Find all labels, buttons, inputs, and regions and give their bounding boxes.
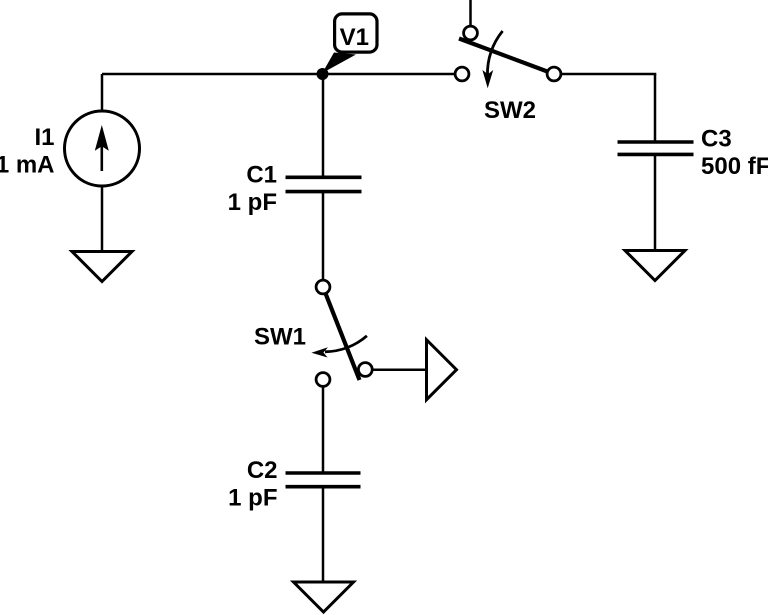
svg-text:C3: C3	[701, 125, 732, 152]
wire junction down to C1	[322, 74, 325, 176]
wire SW2 top stub	[469, 0, 472, 27]
svg-text:1 pF: 1 pF	[228, 189, 277, 216]
svg-text:1 pF: 1 pF	[228, 485, 277, 512]
switch SW1 arc	[325, 336, 367, 352]
capacitor C3 bottom plate	[618, 153, 694, 157]
capacitor C2 bottom plate	[286, 485, 361, 489]
ground under I1	[72, 252, 132, 282]
capacitor C2 top plate	[286, 471, 361, 475]
current source I1 arrow head	[95, 125, 109, 151]
switch SW1 top terminal	[316, 280, 330, 294]
ground rotated right of SW1	[427, 340, 457, 400]
wire corner down to C3	[654, 74, 657, 143]
switch SW2 blade	[459, 39, 554, 75]
svg-text:1 mA: 1 mA	[0, 152, 55, 179]
node V1 junction dot	[317, 68, 329, 80]
switch SW2 left terminal	[455, 67, 469, 81]
current source I1 circle	[65, 111, 140, 186]
svg-text:SW1: SW1	[254, 323, 306, 350]
wire I1 top stub	[101, 74, 104, 112]
svg-text:I1: I1	[34, 124, 54, 151]
wire C1 to SW1	[322, 193, 325, 281]
wire C2 to ground	[322, 488, 325, 583]
switch SW1 blade	[323, 287, 360, 380]
wire SW2 right terminal to C3 corner	[561, 73, 657, 76]
wire top rail from I1 to SW2 left terminal	[102, 73, 456, 76]
svg-text:SW2: SW2	[484, 97, 536, 124]
svg-text:V1: V1	[340, 24, 369, 51]
svg-text:C2: C2	[247, 457, 278, 484]
current source I1 arrow shaft	[101, 146, 104, 171]
switch SW2 arrow head	[482, 70, 493, 88]
switch SW2 top terminal	[464, 26, 478, 40]
switch SW1 bottom terminal	[316, 373, 330, 387]
switch SW2 right terminal	[547, 67, 561, 81]
flag V1 pointer	[322, 53, 356, 74]
switch SW1 right terminal	[358, 363, 372, 377]
switch SW1 arrow head	[311, 347, 328, 357]
svg-text:C1: C1	[246, 161, 277, 188]
capacitor C3 top plate	[618, 140, 694, 144]
wire I1 bottom to ground	[101, 186, 104, 253]
ground under C3	[625, 251, 685, 281]
svg-text:500 fF: 500 fF	[701, 153, 768, 180]
wire SW1 bottom terminal to C2	[322, 387, 325, 475]
wire SW1 right terminal to rotated ground	[373, 368, 428, 371]
capacitor C1 top plate	[286, 176, 362, 180]
ground under C2	[294, 582, 354, 612]
wire C3 to ground	[654, 156, 657, 251]
switch SW2 arc	[487, 31, 502, 76]
capacitor C1 bottom plate	[286, 190, 362, 194]
flag V1 box	[335, 14, 377, 52]
